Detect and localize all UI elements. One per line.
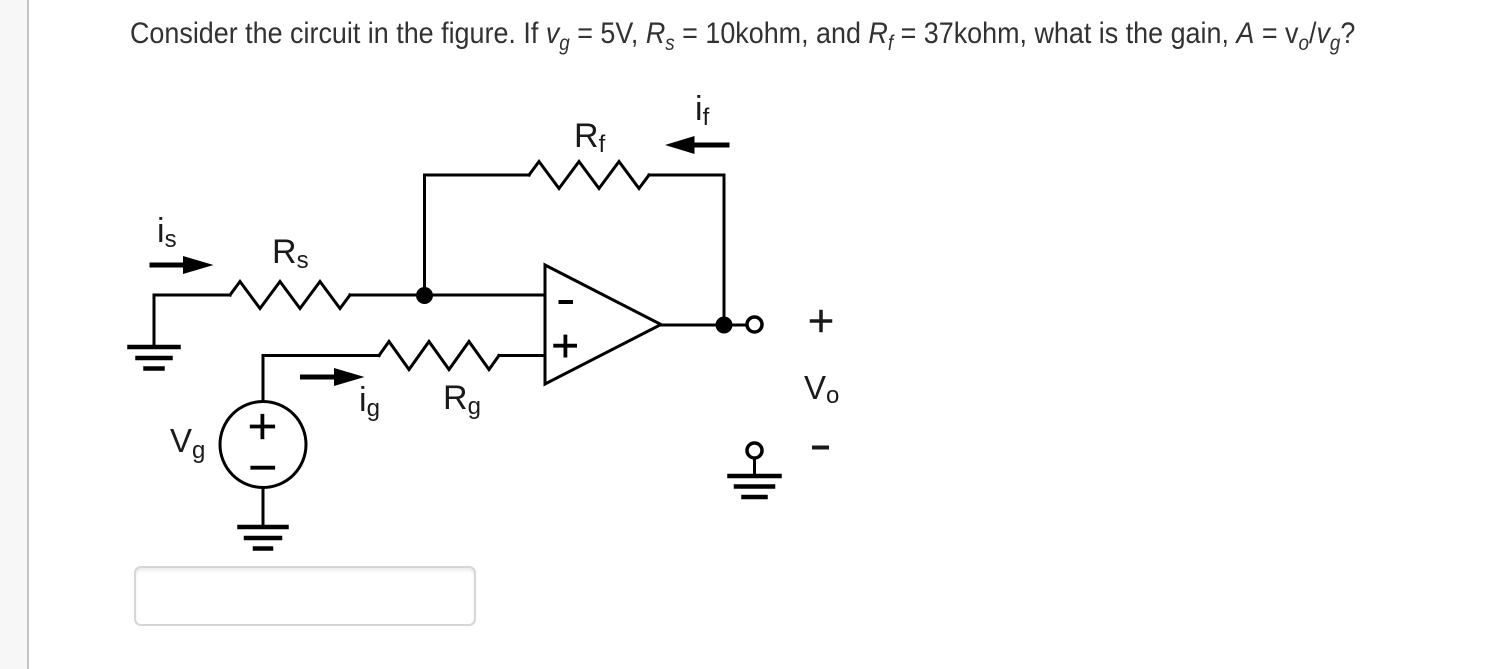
op-amp U1 triangle [545, 265, 661, 384]
voltage source Vg circle [220, 402, 306, 488]
node: output junction dot [716, 317, 733, 334]
wire: source top corner to Rg [263, 356, 379, 402]
svg-text:if: if [695, 90, 710, 131]
op-amp minus sign [561, 300, 572, 304]
wire: input corner from ground up and right to Rs [154, 295, 230, 347]
svg-text:Rf: Rf [574, 117, 606, 158]
wire: feedback top left segment [425, 174, 530, 177]
node: inverting input junction dot [416, 287, 433, 304]
wire: feedback left vertical [423, 175, 426, 295]
ground (left, source of is) [130, 347, 179, 369]
wire: noninverting input from Rg [499, 354, 545, 357]
resistor Rf [529, 162, 649, 189]
svg-text:Rs: Rs [272, 233, 309, 274]
arrow: if current direction (pointing left) [665, 136, 727, 154]
output open terminal circle [747, 317, 762, 332]
vertical divider line [27, 0, 29, 669]
arrow: is current direction [152, 256, 214, 274]
answer input box [134, 566, 476, 626]
source plus sign [252, 416, 274, 438]
wire: op-amp output to terminal [661, 324, 746, 327]
source minus sign [252, 466, 273, 470]
left gray strip [0, 0, 27, 669]
wire: feedback right vertical down to output [723, 175, 726, 325]
op-amp plus sign [555, 337, 575, 356]
question text [130, 19, 1355, 49]
resistor Rs [230, 282, 350, 309]
wire: Rs to op-amp inverting input (through node) [350, 294, 545, 297]
svg-text:ig: ig [359, 381, 380, 422]
svg-text:Rg: Rg [443, 379, 481, 420]
svg-text:is: is [157, 212, 177, 253]
svg-text:Vo: Vo [804, 369, 839, 409]
label - (output polarity) [814, 446, 827, 450]
ground (below source Vg) [240, 527, 287, 549]
svg-text:Vg: Vg [170, 422, 205, 464]
resistor Rg [379, 342, 499, 370]
wire: source bottom to ground [262, 488, 265, 528]
ground (output reference) with terminal circle [730, 443, 780, 497]
label + (output polarity) [812, 312, 831, 331]
arrow: ig current direction [303, 368, 365, 386]
wire: feedback top right segment [649, 174, 724, 177]
